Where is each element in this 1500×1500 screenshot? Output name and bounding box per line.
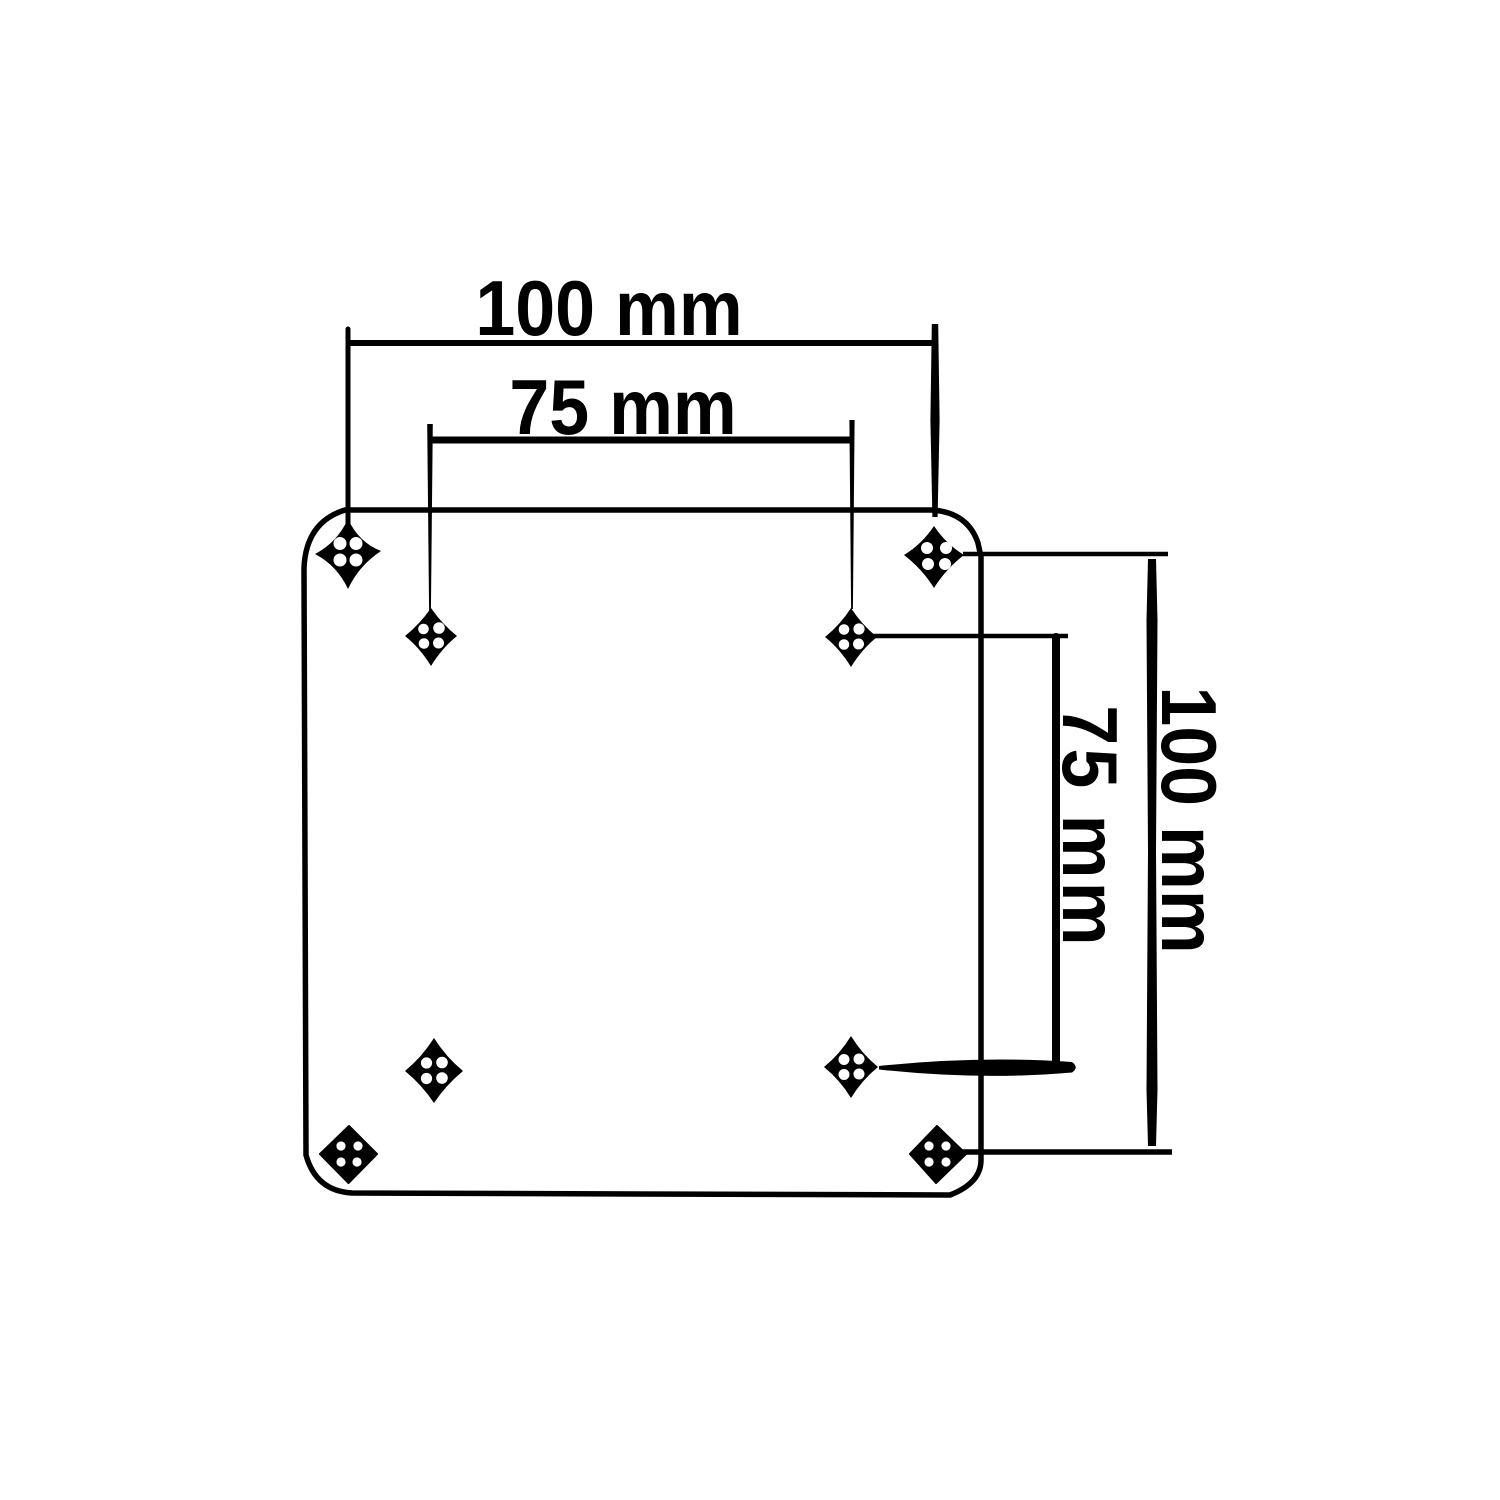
svg-text:75 mm: 75 mm: [509, 363, 736, 450]
hole inner BL (diamond): [405, 1038, 463, 1103]
svg-text:100 mm: 100 mm: [1145, 686, 1232, 953]
hole TL corner (star): [315, 519, 381, 589]
tick H75 left: [427, 424, 433, 612]
tick H100 right: [930, 324, 939, 517]
hole BR corner (diamond): [910, 1126, 966, 1183]
ext V100 top: [963, 552, 1168, 557]
ext V75 bottom blob: [879, 1060, 1076, 1076]
plate outline: [304, 510, 981, 1195]
serif foot of 1 (right label): [1162, 694, 1169, 724]
tick H100 left: [346, 329, 351, 528]
svg-text:75 mm: 75 mm: [1046, 705, 1133, 948]
hole TR corner (star): [904, 526, 964, 588]
hole inner BR (diamond): [824, 1036, 878, 1098]
dim line H75: [430, 437, 852, 444]
ext V100 bottom: [962, 1149, 1172, 1155]
dim line V75: [1052, 637, 1060, 1068]
serif foot of 1 (top label): [484, 329, 513, 336]
hole BL corner (diamond): [320, 1126, 377, 1183]
hole inner TR (diamond): [825, 608, 877, 667]
hole inner TL (diamond): [405, 608, 457, 666]
ext V75 top: [872, 634, 1068, 639]
dim line H100: [348, 340, 935, 346]
tick H75 right: [849, 420, 854, 609]
svg-text:100 mm: 100 mm: [475, 264, 742, 351]
dim line V100: [1147, 559, 1158, 1146]
